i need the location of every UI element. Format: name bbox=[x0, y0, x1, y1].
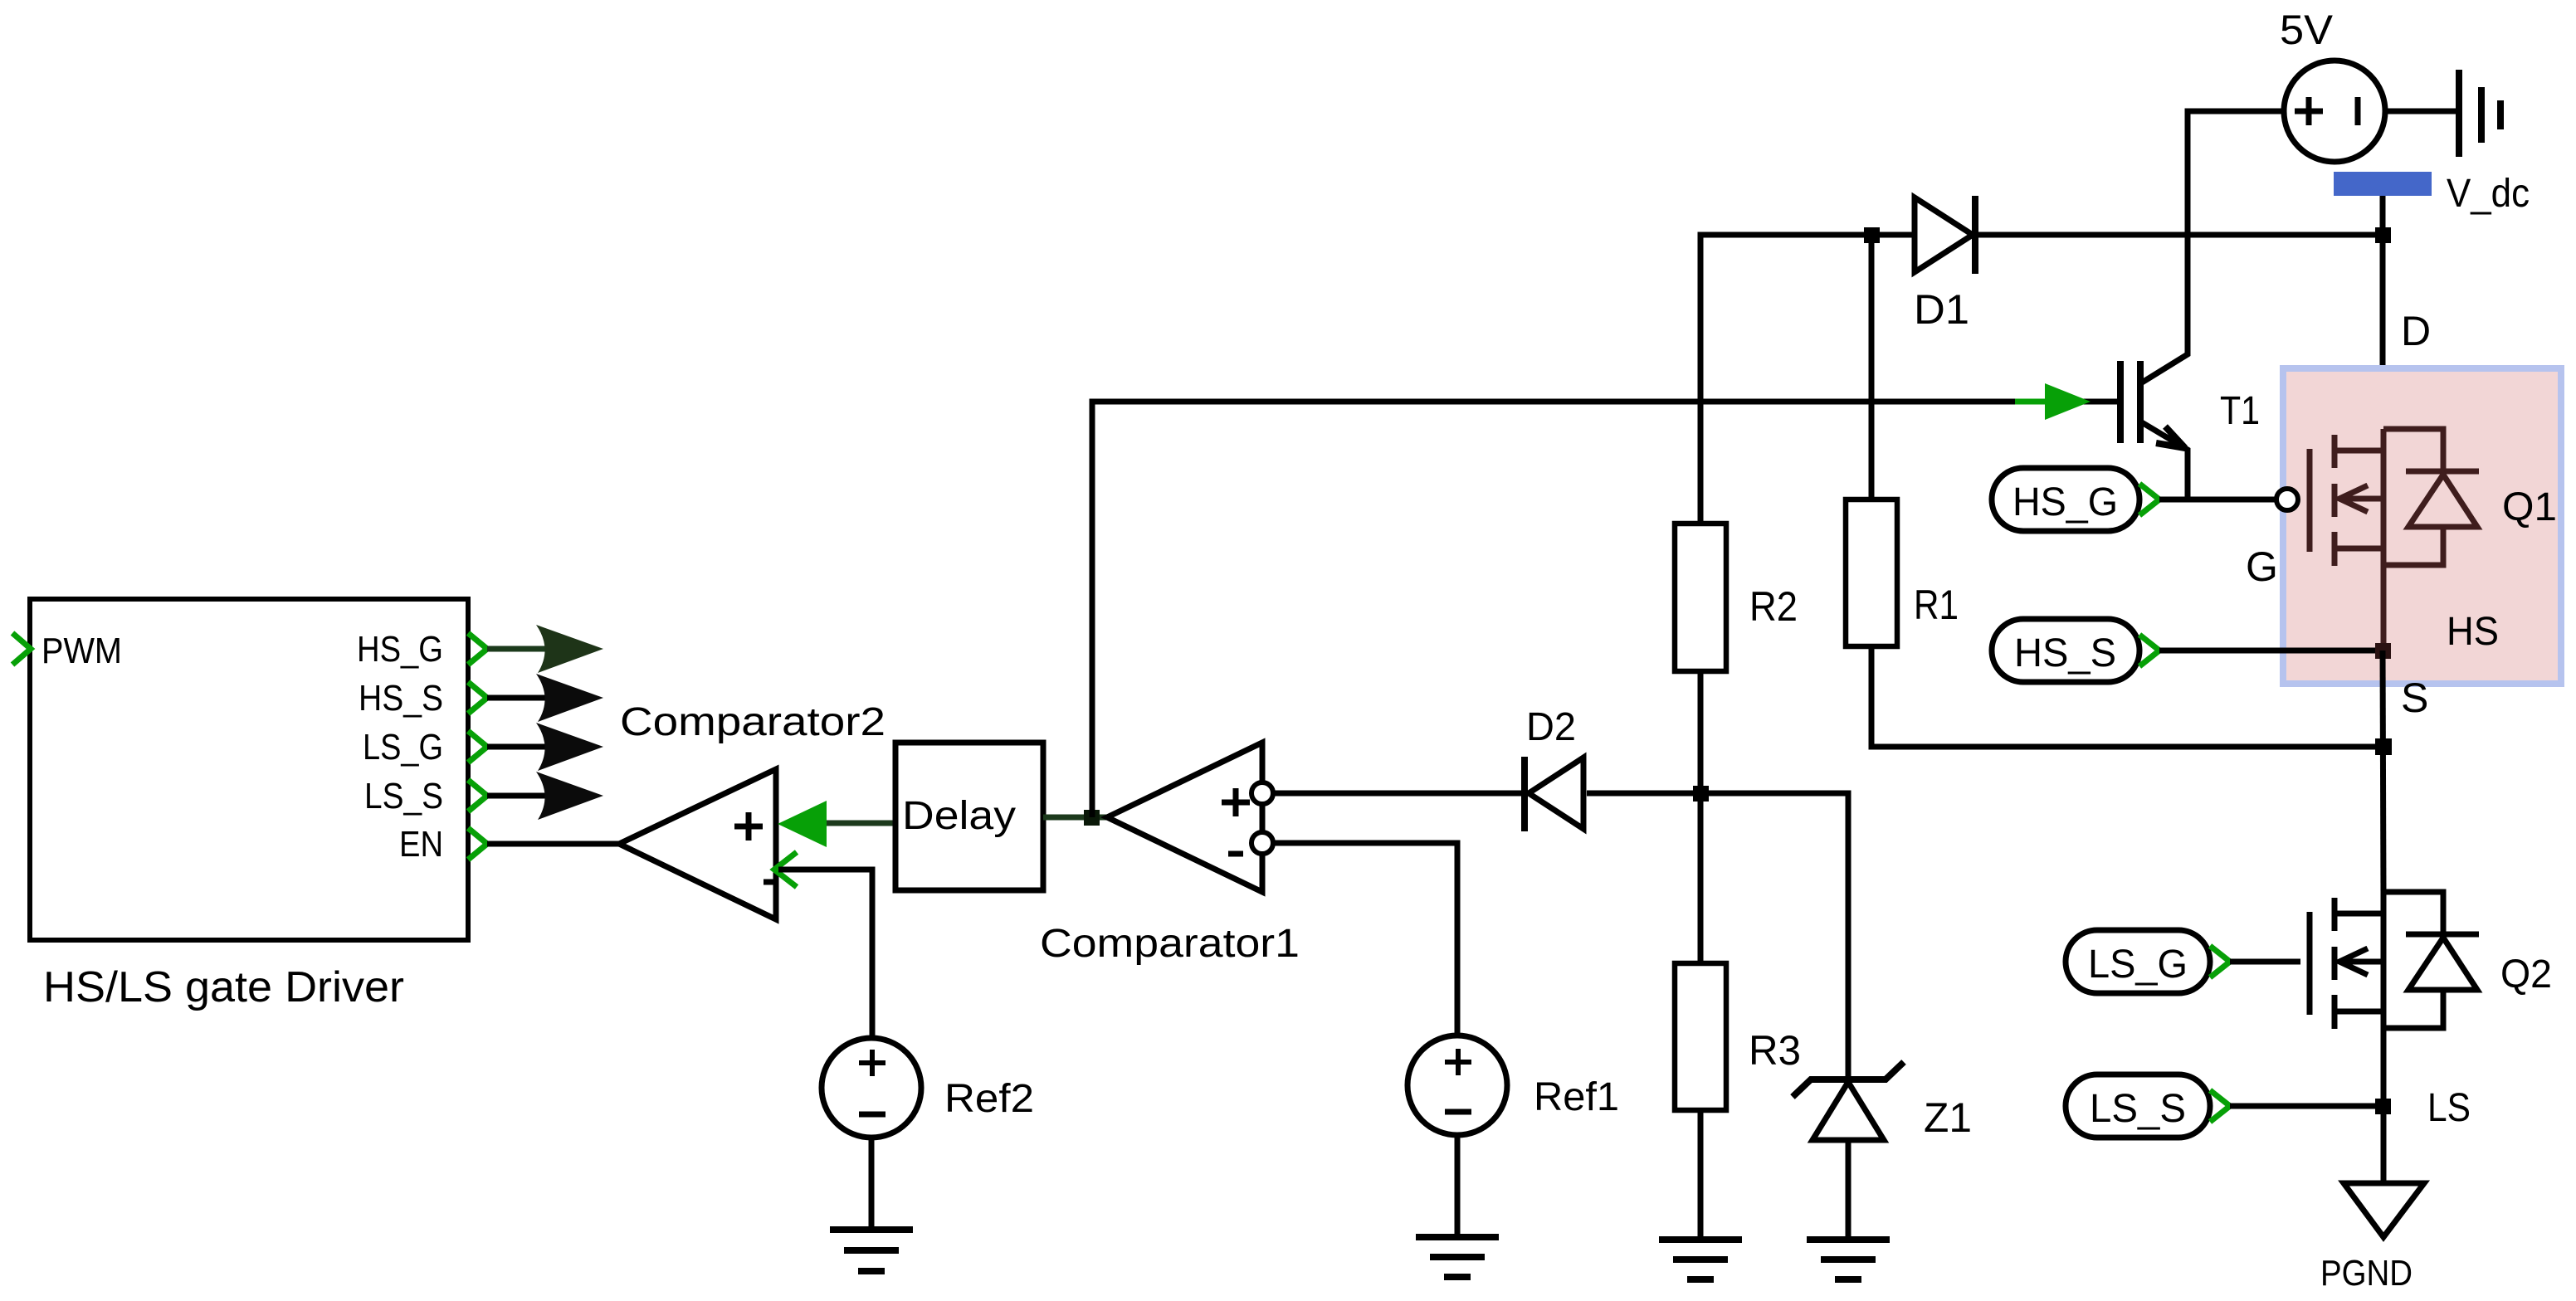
pin circle Comparator1 - bbox=[1251, 832, 1273, 854]
svg-text:Q2: Q2 bbox=[2500, 953, 2552, 996]
wire Delay output to Comparator2 + (dark green) bbox=[822, 821, 898, 826]
net label oval LS_G bbox=[2066, 930, 2210, 993]
arrow HS_G (dark green) bbox=[536, 625, 603, 673]
wire LS_S to LS node bbox=[2230, 1104, 2383, 1109]
svg-text:R2: R2 bbox=[1749, 583, 1798, 630]
svg-text:LS_S: LS_S bbox=[2090, 1087, 2186, 1131]
transistor Q2 (LS MOSFET) bbox=[2310, 892, 2479, 1033]
junction at LS node bbox=[2375, 1099, 2391, 1114]
svg-text:LS_G: LS_G bbox=[363, 727, 443, 767]
arrow HS_S bbox=[536, 674, 603, 722]
chevron at Comparator2 - input (green) bbox=[774, 852, 797, 887]
ground (Ref1) bbox=[1416, 1234, 1499, 1240]
net label oval HS_G bbox=[1992, 468, 2139, 531]
diode D2 bbox=[1521, 757, 1528, 831]
svg-text:Q1: Q1 bbox=[2502, 485, 2557, 529]
ground (5V, rotated) bbox=[2456, 70, 2462, 157]
wire Comparator1 output riser to T1 gate row bbox=[1092, 402, 2118, 817]
wire green segment before T1 gate arrow bbox=[2015, 399, 2047, 405]
net label V_dc (blue bar) bbox=[2334, 172, 2432, 196]
wire Ref1 to ground bbox=[1455, 1135, 1461, 1237]
wire D1 cathode to V_dc junction bbox=[1975, 232, 2383, 238]
wire Comparator1 - input to Ref1 bbox=[1273, 843, 1457, 1037]
wire Comparator2 - input to Ref2 bbox=[778, 870, 872, 1040]
svg-text:V_dc: V_dc bbox=[2447, 172, 2530, 216]
transistor T1 (IGBT) bbox=[2117, 361, 2124, 443]
pin EN chevron bbox=[468, 828, 487, 860]
svg-text:D2: D2 bbox=[1526, 705, 1576, 749]
ground PGND (triangle) bbox=[2344, 1183, 2424, 1237]
wire node up to R2 bbox=[1698, 671, 1704, 793]
wire HS_S to Q1 source bbox=[2159, 648, 2383, 654]
wire junction down to R1 bbox=[1869, 235, 1875, 499]
wire R1 bottom to S node bbox=[1871, 646, 2383, 747]
wire V_dc junction down to Q1 drain (D) bbox=[2380, 235, 2386, 431]
wire Delay to Comparator1 output (dark green) bbox=[1043, 815, 1107, 821]
wire Comparator1 + input to D2 bbox=[1273, 791, 1527, 797]
svg-text:5V: 5V bbox=[2280, 7, 2334, 53]
wire S node down bbox=[2383, 650, 2383, 894]
voltage source Ref2 bbox=[822, 1038, 921, 1138]
svg-text:HS: HS bbox=[2447, 610, 2499, 654]
junction at V_dc bbox=[2375, 227, 2391, 243]
ground (R3) bbox=[1659, 1236, 1742, 1243]
resistor R2 bbox=[1675, 524, 1726, 671]
diode D1 bbox=[1871, 232, 1915, 238]
svg-text:HS_G: HS_G bbox=[357, 629, 443, 670]
junction at S / R1 wire bbox=[2375, 738, 2392, 755]
svg-text:PGND: PGND bbox=[2320, 1253, 2413, 1294]
wire R2 top to corner and to D1 anode junction bbox=[1700, 235, 1873, 524]
wire HS_S stub bbox=[487, 695, 548, 701]
voltage source 5V bbox=[2284, 61, 2385, 162]
wire node down to R3 bbox=[1698, 793, 1704, 963]
arrow LS_G bbox=[536, 723, 603, 771]
arrow gate-drive (green) on T1 gate wire bbox=[2045, 383, 2091, 420]
net label oval HS_S bbox=[1992, 619, 2139, 682]
svg-text:Ref1: Ref1 bbox=[1534, 1075, 1619, 1119]
arrow at Comparator2 + input (green) bbox=[778, 801, 827, 847]
comparator Comparator2 bbox=[619, 769, 776, 919]
svg-text:HS_S: HS_S bbox=[2014, 631, 2116, 675]
wire 5V right lead bbox=[2385, 109, 2459, 115]
wire HS_G to Q1 gate bbox=[2159, 497, 2275, 503]
pin HS_S chevron bbox=[468, 682, 487, 714]
svg-text:Ref2: Ref2 bbox=[944, 1077, 1034, 1121]
junction at Comparator1 output bbox=[1084, 810, 1100, 826]
wire V_dc bar to junction bbox=[2380, 196, 2386, 235]
svg-text:Comparator2: Comparator2 bbox=[620, 700, 885, 744]
resistor R1 bbox=[1846, 499, 1897, 646]
svg-text:T1: T1 bbox=[2220, 389, 2260, 433]
wire HS_G stub (dark green) bbox=[487, 646, 548, 652]
pin PWM (input chevron) bbox=[12, 633, 31, 665]
svg-text:Z1: Z1 bbox=[1924, 1094, 1972, 1141]
node (D2/R2/R3/Z1 junction) bbox=[1693, 786, 1709, 802]
ground (Z1) bbox=[1807, 1236, 1890, 1243]
wire LS_G to Q2 gate bbox=[2230, 959, 2300, 965]
svg-text:S: S bbox=[2401, 675, 2428, 721]
svg-text:D: D bbox=[2401, 308, 2431, 354]
wire 5V left lead to T1 collector bbox=[2142, 111, 2284, 383]
junction at Q1 source (HS_S) bbox=[2375, 643, 2391, 659]
highlight box HS (pink) bbox=[2283, 368, 2561, 684]
pin HS_G chevron bbox=[468, 633, 487, 665]
delay block Delay bbox=[895, 743, 1043, 890]
resistor R3 bbox=[1675, 963, 1726, 1110]
svg-text:HS_S: HS_S bbox=[359, 678, 443, 719]
comparator Comparator1 bbox=[1107, 743, 1262, 892]
wire node to Z1 branch bbox=[1700, 793, 1848, 1079]
svg-text:R1: R1 bbox=[1914, 582, 1959, 628]
HS/LS gate driver block U1 bbox=[30, 599, 468, 940]
wire R3 to ground bbox=[1698, 1110, 1704, 1240]
pin LS_G chevron bbox=[468, 731, 487, 763]
svg-text:D1: D1 bbox=[1914, 286, 1969, 333]
pin circle Comparator1 + bbox=[1251, 782, 1273, 804]
svg-text:Delay: Delay bbox=[902, 794, 1016, 838]
transistor Q1 (HS MOSFET, dark red) bbox=[2310, 429, 2479, 650]
svg-text:EN: EN bbox=[399, 824, 443, 865]
wire D2 to node bbox=[1587, 791, 1703, 797]
pin circle Q1 gate bbox=[2276, 489, 2298, 510]
wire Ref2 to ground bbox=[869, 1138, 875, 1230]
voltage source Ref1 bbox=[1408, 1035, 1507, 1135]
T1 emitter with arrow bbox=[2140, 421, 2188, 499]
wire LS_S stub bbox=[487, 793, 548, 799]
ground (Ref2) bbox=[830, 1226, 913, 1233]
wire LS_G stub bbox=[487, 744, 548, 750]
svg-text:Comparator1: Comparator1 bbox=[1040, 922, 1300, 966]
wire Z1 to ground bbox=[1846, 1140, 1851, 1240]
svg-text:LS_G: LS_G bbox=[2088, 943, 2188, 987]
svg-text:LS_S: LS_S bbox=[364, 776, 443, 816]
svg-text:LS: LS bbox=[2427, 1086, 2471, 1130]
svg-text:HS_G: HS_G bbox=[2013, 480, 2118, 524]
svg-text:PWM: PWM bbox=[41, 631, 122, 671]
wire EN to Comparator2 bbox=[487, 841, 622, 847]
svg-text:R3: R3 bbox=[1749, 1027, 1801, 1074]
svg-text:HS/LS gate Driver: HS/LS gate Driver bbox=[43, 963, 404, 1011]
net label oval LS_S bbox=[2066, 1074, 2210, 1138]
zener diode Z1 bbox=[1793, 1062, 1904, 1097]
wire Q2 source to PGND bbox=[2381, 1033, 2387, 1183]
pin LS_S chevron bbox=[468, 780, 487, 811]
junction at D1 anode bbox=[1864, 227, 1880, 243]
arrow LS_S bbox=[536, 772, 603, 820]
svg-text:G: G bbox=[2246, 543, 2278, 590]
